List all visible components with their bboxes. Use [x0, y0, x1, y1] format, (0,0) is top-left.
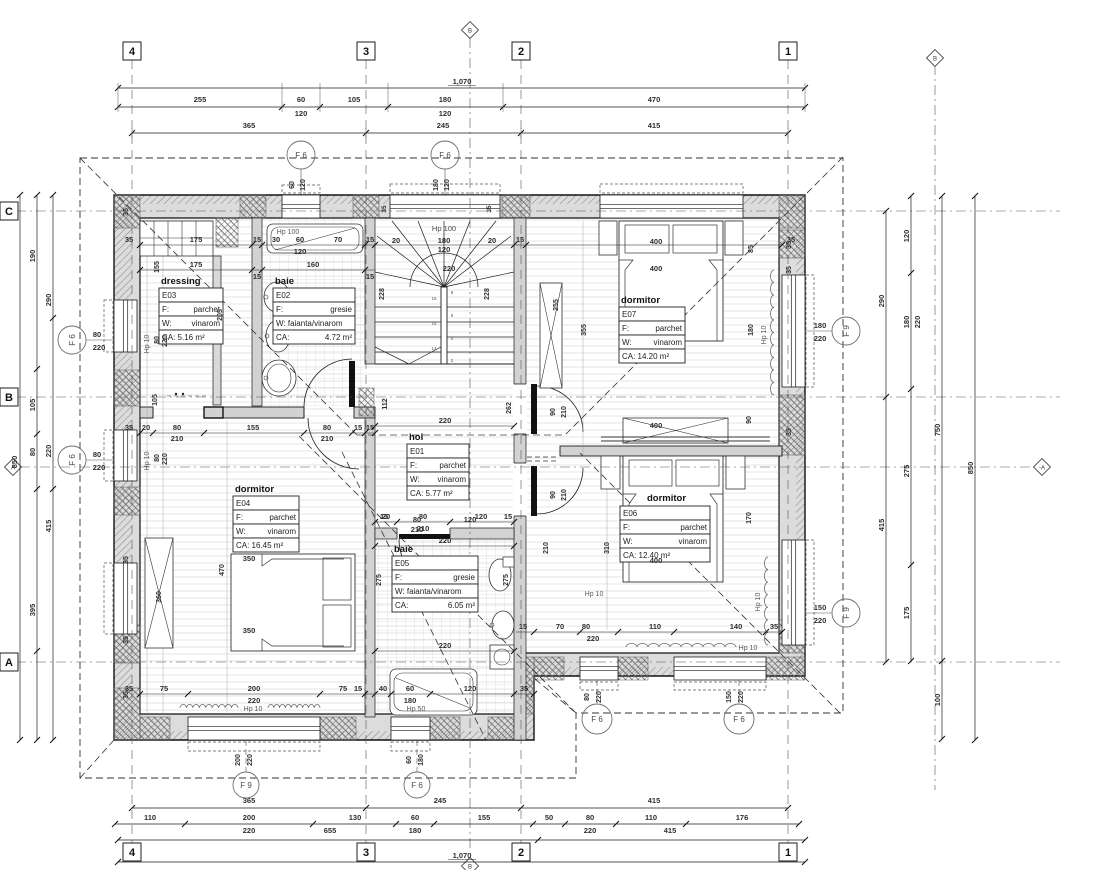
svg-text:750: 750	[933, 424, 942, 437]
svg-text:E04: E04	[236, 499, 251, 508]
dimension chain bottom total	[118, 861, 805, 863]
svg-text:365: 365	[243, 121, 256, 130]
axis box A left	[0, 653, 18, 671]
svg-text:70: 70	[556, 622, 564, 631]
svg-text:150: 150	[726, 691, 733, 703]
dimension chain top total 1070	[118, 87, 805, 89]
svg-text:415: 415	[664, 826, 677, 835]
svg-text:15: 15	[253, 235, 261, 244]
svg-text:360: 360	[156, 591, 163, 603]
svg-text:220: 220	[162, 453, 169, 465]
interior wall stair right / E07 left	[514, 218, 526, 740]
axis box 3 bottom	[357, 843, 375, 861]
door opening hol to baie E05 D5	[397, 527, 450, 540]
stair treads	[375, 306, 441, 308]
svg-text:35: 35	[786, 241, 793, 249]
svg-text:228: 228	[484, 288, 491, 300]
svg-text:80: 80	[586, 813, 594, 822]
svg-text:Hp 10: Hp 10	[144, 452, 151, 471]
roof hip bottom-right	[580, 453, 840, 713]
svg-text:Hp 100: Hp 100	[432, 224, 456, 233]
extension line dressing vertical	[146, 222, 148, 714]
svg-text:400: 400	[650, 556, 663, 565]
interior dim row hol bottom	[375, 521, 514, 523]
svg-text:220: 220	[44, 445, 53, 458]
svg-text:180: 180	[404, 696, 417, 705]
svg-text:B: B	[468, 865, 472, 870]
dormitor E07 wardrobe 400 x-box	[623, 418, 728, 443]
svg-text:1,070: 1,070	[453, 77, 472, 86]
svg-text:6.05 m²: 6.05 m²	[448, 601, 475, 610]
svg-text:parchet: parchet	[439, 461, 466, 470]
svg-text:F:: F:	[623, 523, 630, 532]
svg-text:W: faianta/vinarom: W: faianta/vinarom	[276, 319, 343, 328]
interior dim row baie E05 top	[375, 545, 514, 547]
svg-text:220: 220	[162, 335, 169, 347]
window E04 bottom wall 200/220	[188, 717, 320, 740]
dressing closet top	[140, 221, 213, 256]
svg-text:W: faianta/vinarom: W: faianta/vinarom	[395, 587, 462, 596]
dimension chain right col4	[974, 196, 976, 740]
exterior wall outer hatch layer	[114, 195, 805, 740]
svg-text:150: 150	[814, 603, 827, 612]
svg-text:CA: 12.40 m²: CA: 12.40 m²	[623, 551, 670, 560]
svg-text:220: 220	[247, 754, 254, 766]
svg-text:50: 50	[545, 813, 553, 822]
svg-text:F 9: F 9	[842, 325, 851, 337]
axis box 1 top	[779, 42, 797, 60]
shaft hatch dressing top right	[216, 218, 238, 247]
svg-text:Hp 10: Hp 10	[739, 645, 758, 652]
dimension chain left total 850	[19, 195, 21, 740]
svg-text:A: A	[5, 657, 13, 669]
extension lines top	[117, 83, 119, 112]
roof line steep	[342, 452, 486, 740]
svg-text:vinarom: vinarom	[268, 527, 297, 536]
svg-text:15: 15	[519, 622, 527, 631]
svg-text:4.72 m²: 4.72 m²	[325, 333, 352, 342]
window baie E05 bottom wall 60/180	[391, 717, 430, 740]
svg-text:35: 35	[770, 622, 778, 631]
window mark F6 bottom E06 right	[738, 680, 740, 703]
svg-text:15: 15	[253, 272, 261, 281]
svg-text:W:: W:	[162, 319, 172, 328]
dormitor E06 bed	[623, 456, 723, 582]
svg-text:hol: hol	[409, 432, 423, 443]
svg-text:1,070: 1,070	[453, 851, 472, 860]
svg-text:176: 176	[736, 813, 749, 822]
axis box 4 top	[123, 42, 141, 60]
dimension chain left col3	[52, 195, 54, 740]
stair bottom winders	[375, 347, 409, 364]
radiator E06 bottom	[626, 644, 736, 648]
svg-text:110: 110	[144, 813, 156, 822]
svg-text:20: 20	[392, 236, 400, 245]
svg-text:80: 80	[419, 512, 427, 521]
baie E02 bathtub	[267, 224, 363, 253]
svg-text:F 6: F 6	[295, 151, 307, 160]
svg-text:W:: W:	[236, 527, 246, 536]
svg-text:Hp 10: Hp 10	[585, 591, 604, 598]
grid axis B horizontal	[16, 396, 1060, 398]
grid axis 3 vertical	[365, 60, 367, 843]
svg-text:40: 40	[379, 684, 387, 693]
svg-text:CA: 5.77 m²: CA: 5.77 m²	[410, 489, 453, 498]
svg-text:220: 220	[439, 536, 452, 545]
svg-text:210: 210	[321, 434, 334, 443]
interior wall hol-baieE05	[375, 528, 514, 539]
svg-text:F:: F:	[162, 305, 169, 314]
svg-text:F 6: F 6	[411, 781, 423, 790]
svg-text:E02: E02	[276, 291, 291, 300]
svg-text:B: B	[5, 392, 13, 404]
interior dim row mid corridor	[140, 432, 375, 434]
baie E05 toilet	[489, 559, 511, 591]
svg-text:120: 120	[439, 109, 452, 118]
section marker right A	[1034, 459, 1051, 476]
svg-text:35: 35	[125, 235, 133, 244]
svg-text:220: 220	[814, 616, 827, 625]
svg-text:80: 80	[173, 423, 181, 432]
svg-text:-A: -A	[1039, 466, 1045, 472]
svg-text:180: 180	[439, 95, 452, 104]
svg-text:F:: F:	[276, 305, 283, 314]
svg-text:CA:: CA:	[276, 333, 289, 342]
door axis marker dressing door	[167, 395, 206, 397]
svg-text:1: 1	[785, 847, 791, 859]
svg-text:F 6: F 6	[733, 715, 745, 724]
svg-text:vinarom: vinarom	[654, 338, 683, 347]
window mark F6 left upper	[86, 339, 114, 341]
svg-text:105: 105	[152, 394, 159, 406]
interior dim row E04 bottom	[140, 693, 534, 695]
roof hip top-right	[566, 157, 843, 434]
svg-text:gresie: gresie	[330, 305, 352, 314]
svg-text:80: 80	[28, 448, 37, 456]
svg-text:dormitor: dormitor	[647, 493, 686, 504]
svg-text:155: 155	[247, 423, 260, 432]
svg-text:80: 80	[584, 693, 591, 701]
extension line E07 vertical	[582, 221, 584, 455]
svg-text:120: 120	[902, 230, 911, 243]
svg-text:220: 220	[587, 634, 600, 643]
window F6 60/120 baie E02 top wall	[282, 195, 320, 218]
grid axis A horizontal	[16, 661, 1060, 663]
roof ridge	[357, 434, 566, 436]
svg-text:F:: F:	[236, 513, 243, 522]
svg-text:90: 90	[746, 416, 753, 424]
svg-text:220: 220	[738, 691, 745, 703]
svg-text:gresie: gresie	[453, 573, 475, 582]
svg-text:400: 400	[650, 264, 663, 273]
svg-text:80: 80	[93, 330, 101, 339]
section marker left A	[5, 459, 22, 476]
svg-text:850: 850	[10, 456, 19, 469]
svg-text:baie: baie	[394, 544, 413, 555]
svg-text:310: 310	[604, 542, 611, 554]
svg-text:210: 210	[561, 489, 568, 501]
svg-text:3: 3	[363, 46, 369, 58]
dimension chain bottom row1	[132, 807, 788, 809]
interior dim row2 top rooms	[140, 269, 375, 271]
svg-text:255: 255	[194, 95, 207, 104]
svg-text:Hp 10: Hp 10	[144, 335, 151, 354]
svg-text:baie: baie	[275, 276, 294, 287]
grid axis 1 vertical	[787, 60, 789, 843]
svg-text:90: 90	[550, 491, 557, 499]
svg-text:60: 60	[289, 181, 296, 189]
svg-text:90: 90	[550, 408, 557, 416]
section line vertical B	[469, 38, 471, 852]
svg-text:B: B	[933, 57, 937, 63]
svg-text:35: 35	[381, 205, 388, 213]
svg-text:175: 175	[190, 235, 203, 244]
section line vertical right	[934, 65, 936, 790]
axis box 3 top	[357, 42, 375, 60]
window mark F9 right lower	[805, 612, 832, 614]
svg-text:35: 35	[123, 556, 130, 564]
roof outline dashed	[80, 158, 843, 778]
svg-text:30: 30	[272, 235, 280, 244]
svg-text:35: 35	[786, 428, 793, 436]
exterior wall outlines	[114, 195, 805, 740]
svg-text:W:: W:	[623, 537, 633, 546]
svg-text:120: 120	[475, 512, 488, 521]
svg-text:1: 1	[785, 46, 791, 58]
svg-text:400: 400	[650, 421, 663, 430]
svg-text:vinarom: vinarom	[438, 475, 467, 484]
axis box C left	[0, 202, 18, 220]
svg-text:290: 290	[877, 295, 886, 308]
axis box 1 bottom	[779, 843, 797, 861]
svg-text:245: 245	[434, 796, 447, 805]
grid axis 2 vertical	[520, 60, 522, 843]
svg-text:105: 105	[28, 399, 37, 412]
svg-text:130: 130	[349, 813, 362, 822]
svg-text:60: 60	[406, 756, 413, 764]
svg-text:290: 290	[44, 294, 53, 307]
svg-text:190: 190	[28, 250, 37, 263]
svg-text:110: 110	[649, 622, 661, 631]
window left wall lower	[114, 563, 137, 634]
grid axis C horizontal	[16, 210, 1060, 212]
svg-text:180: 180	[748, 324, 755, 336]
svg-text:350: 350	[243, 626, 256, 635]
svg-text:210: 210	[543, 542, 550, 554]
axis box 4 bottom	[123, 843, 141, 861]
svg-text:16: 16	[431, 296, 437, 301]
baie E02 toilet	[264, 282, 290, 312]
svg-text:F:: F:	[622, 324, 629, 333]
svg-text:275: 275	[503, 574, 510, 586]
svg-text:dormitor: dormitor	[621, 295, 660, 306]
svg-text:210: 210	[171, 434, 184, 443]
svg-text:85: 85	[748, 245, 755, 253]
svg-text:14: 14	[431, 346, 437, 351]
dimension chain bottom row3	[118, 839, 805, 841]
door opening dressing	[152, 407, 154, 418]
svg-text:200: 200	[235, 754, 242, 766]
svg-text:E01: E01	[410, 447, 425, 456]
svg-text:B: B	[468, 29, 472, 35]
svg-text:70: 70	[334, 235, 342, 244]
svg-text:180: 180	[902, 316, 911, 329]
baie E05 bathtub	[390, 669, 477, 715]
door opening baie E02 with arc	[303, 407, 305, 418]
svg-text:262: 262	[506, 402, 513, 414]
dormitor E07 bed	[619, 221, 723, 341]
svg-text:200: 200	[243, 813, 256, 822]
section line A-A horizontal	[20, 466, 1042, 468]
svg-text:F 6: F 6	[68, 334, 77, 346]
svg-text:220: 220	[596, 691, 603, 703]
svg-text:parchet: parchet	[655, 324, 682, 333]
svg-text:140: 140	[730, 622, 743, 631]
dimension chain right col3	[941, 196, 943, 739]
svg-text:120: 120	[295, 109, 308, 118]
svg-text:220: 220	[814, 334, 827, 343]
svg-text:220: 220	[248, 696, 261, 705]
svg-text:75: 75	[160, 684, 168, 693]
svg-text:Hp 10: Hp 10	[755, 593, 762, 612]
window F6 80/220 left wall upper	[114, 300, 137, 352]
svg-text:15: 15	[516, 235, 524, 244]
svg-text:350: 350	[243, 554, 256, 563]
window F6 180/120 stair top wall	[390, 195, 500, 218]
exterior wall band	[114, 195, 805, 740]
roof corner step diagonal	[535, 679, 576, 713]
svg-text:35: 35	[123, 691, 130, 699]
svg-text:E07: E07	[622, 310, 637, 319]
svg-text:220: 220	[584, 826, 597, 835]
svg-text:120: 120	[294, 247, 307, 256]
svg-text:15: 15	[366, 272, 374, 281]
svg-text:2: 2	[518, 46, 524, 58]
svg-text:160: 160	[307, 260, 320, 269]
svg-text:355: 355	[581, 324, 588, 336]
svg-text:400: 400	[650, 237, 663, 246]
section marker bottom B	[462, 858, 479, 870]
svg-text:80: 80	[154, 336, 161, 344]
axis box B left	[0, 388, 18, 406]
interior dim row baie E05 bottom	[375, 650, 514, 652]
section marker top right	[927, 50, 944, 67]
svg-text:210: 210	[561, 406, 568, 418]
wall pier blocks	[114, 195, 140, 228]
svg-text:120: 120	[464, 684, 477, 693]
grid axis 4 vertical	[131, 60, 133, 843]
interior wall corridor W2 left segment	[140, 407, 153, 418]
svg-text:35: 35	[123, 208, 130, 216]
svg-text:60: 60	[411, 813, 419, 822]
window mark F6 left lower	[86, 459, 114, 461]
svg-text:35: 35	[786, 266, 793, 274]
svg-text:175: 175	[902, 607, 911, 620]
svg-text:200: 200	[248, 684, 261, 693]
window E06 bottom wall 80/220	[580, 657, 618, 680]
svg-text:220: 220	[913, 316, 922, 329]
svg-text:110: 110	[645, 813, 657, 822]
window E06 bottom wall 150/220	[674, 657, 766, 680]
window dormitor E07 top wall	[600, 195, 743, 218]
radiator E04 bottom	[180, 705, 238, 709]
svg-text:F 6: F 6	[591, 715, 603, 724]
interior dim row hol top	[375, 425, 514, 427]
floor parquet rooms	[137, 218, 782, 718]
svg-text:470: 470	[219, 564, 226, 576]
svg-text:415: 415	[877, 519, 886, 532]
svg-text:W:: W:	[622, 338, 632, 347]
floor tiles baie E05	[375, 539, 514, 717]
svg-text:220: 220	[93, 463, 106, 472]
window mark F9 bottom left roof	[245, 784, 247, 786]
stair spine wall	[441, 287, 447, 364]
door opening hol to E06 D3	[513, 463, 527, 516]
svg-text:F:: F:	[410, 461, 417, 470]
svg-text:15: 15	[354, 423, 362, 432]
svg-text:220: 220	[439, 416, 452, 425]
svg-text:655: 655	[324, 826, 337, 835]
interior wall hol-E04 vertical	[365, 418, 375, 717]
svg-text:2: 2	[518, 847, 524, 859]
svg-text:35: 35	[486, 205, 493, 213]
interior wall corridor W2 mid segment	[204, 407, 304, 418]
svg-text:F 6: F 6	[68, 454, 77, 466]
svg-text:415: 415	[648, 121, 661, 130]
floor tiles baie E02	[262, 218, 365, 406]
extension line E06 vertical	[606, 460, 608, 630]
svg-text:850: 850	[966, 462, 975, 475]
svg-text:20: 20	[382, 512, 390, 521]
svg-text:Hp 100: Hp 100	[277, 229, 300, 236]
svg-text:60: 60	[406, 684, 414, 693]
svg-text:35: 35	[123, 636, 130, 644]
svg-text:C: C	[5, 206, 13, 218]
stair walk line arc	[410, 253, 478, 287]
interior wall dressing-baie W1	[252, 218, 262, 406]
svg-text:175: 175	[190, 260, 203, 269]
svg-text:35: 35	[520, 684, 528, 693]
interior dim row top rooms	[140, 244, 782, 246]
baie E05 washer	[490, 645, 514, 669]
exterior mask bottom-right notch	[534, 680, 805, 740]
window mark F9 right upper	[805, 330, 832, 332]
svg-text:F 6: F 6	[439, 151, 451, 160]
interior wall E07-E06	[560, 446, 782, 456]
axis box 2 bottom	[512, 843, 530, 861]
svg-text:F:: F:	[395, 573, 402, 582]
svg-text:395: 395	[28, 604, 37, 617]
svg-text:120: 120	[444, 179, 451, 191]
svg-text:E03: E03	[162, 291, 177, 300]
svg-text:E06: E06	[623, 509, 638, 518]
svg-text:105: 105	[348, 95, 361, 104]
svg-text:155: 155	[154, 261, 161, 273]
svg-text:parchet: parchet	[680, 523, 707, 532]
svg-text:W:: W:	[410, 475, 420, 484]
baie E02 sink	[262, 360, 296, 396]
svg-text:20: 20	[142, 423, 150, 432]
svg-text:80: 80	[323, 423, 331, 432]
svg-text:4: 4	[129, 46, 136, 58]
dimension chain top row2	[118, 106, 805, 108]
svg-text:3: 3	[363, 847, 369, 859]
window mark F6 bottom E06 left	[596, 680, 598, 703]
svg-text:275: 275	[902, 465, 911, 478]
svg-text:112: 112	[382, 398, 389, 409]
svg-text:15: 15	[431, 321, 437, 326]
dressing closet right unit	[213, 256, 221, 405]
